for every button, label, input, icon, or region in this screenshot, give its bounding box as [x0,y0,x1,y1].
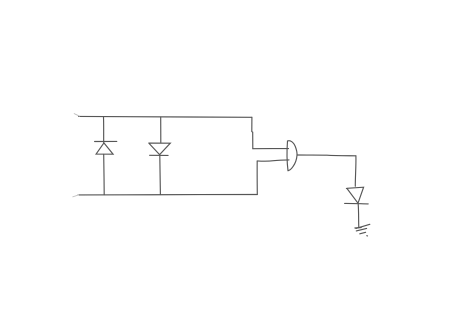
diode D2 (cathode bar) [150,154,169,156]
wire top-rail drop to gate upper input [252,117,253,148]
op-amp / AND gate U1 body (front curve) [288,141,298,171]
wire branch 1 upper (top rail to D1) [103,117,105,143]
wire branch 2 lower (D2 to bottom rail) [159,156,162,195]
ground (hand-drawn earth symbol) [355,227,361,230]
diode D1 (cathode bar) [95,140,117,142]
wire branch 1 lower (D1 to bottom rail) [103,154,106,195]
diode D1 (triangle, pointing up) [96,143,113,154]
op-amp / AND gate U1 body (back edge) [286,141,289,171]
faint pencil tick at left end of top rail [74,114,79,117]
wire gate lower input horizontal [257,160,289,161]
wire output drop to D3 [354,156,357,187]
wire bottom-rail riser to gate lower input [256,161,258,194]
diode D3 (cathode bar) [345,202,369,205]
faint pencil tick at left end of bottom rail [73,195,79,197]
wire D3 to ground [357,204,360,227]
wire top rail [79,115,252,118]
wire gate output horizontal [297,154,356,157]
wire gate upper input horizontal [253,148,289,150]
wire bottom rail [78,194,257,196]
diode D2 (triangle, pointing down) [149,143,171,155]
wire branch 2 upper (top rail to D2) [160,117,162,142]
diode D3 (triangle, pointing down) [346,187,363,203]
